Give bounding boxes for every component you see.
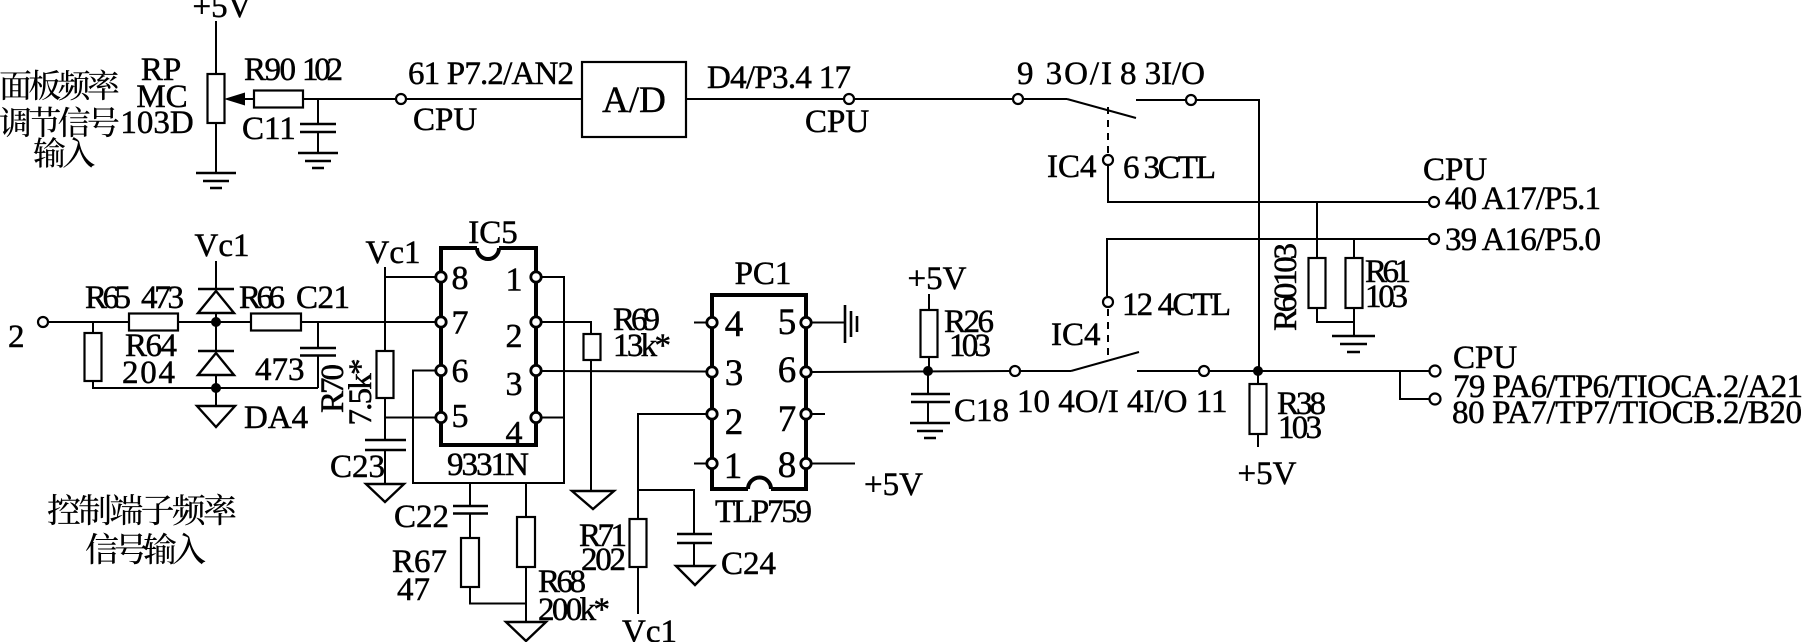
junction dot (lower node) xyxy=(211,383,221,393)
PC1 box xyxy=(712,295,806,489)
R26 lower lead xyxy=(928,357,930,371)
svg-text:7: 7 xyxy=(452,305,469,342)
capacitor C21 branch xyxy=(317,322,319,348)
R71 lower lead xyxy=(637,567,639,614)
chassis ground at pin 5 xyxy=(845,305,857,343)
resistor R66 body xyxy=(251,314,301,331)
diode DA4 upper triangle xyxy=(198,291,234,313)
wire to node xyxy=(215,313,217,322)
svg-text:9331N: 9331N xyxy=(447,447,529,483)
capacitor C18 branch xyxy=(927,371,929,394)
svg-text:200k*: 200k* xyxy=(538,592,610,628)
terminal 12 4CTL xyxy=(1103,297,1113,307)
R70 lower wire xyxy=(384,398,386,440)
junction dot (input node) xyxy=(211,317,221,327)
svg-text:47: 47 xyxy=(397,572,430,608)
svg-text:R90: R90 xyxy=(244,52,296,88)
resistor R61 upper lead xyxy=(1353,239,1355,258)
wire 2 to R65 xyxy=(48,321,129,323)
resistor R38 upper lead xyxy=(1257,371,1259,384)
capacitor C11 plates xyxy=(300,123,336,126)
terminal 79 xyxy=(1430,366,1441,377)
junction dot (R26/C18) xyxy=(923,366,933,376)
terminal 80 xyxy=(1430,394,1441,405)
svg-text:4: 4 xyxy=(506,415,523,452)
ground under C18 xyxy=(910,423,950,438)
svg-text:IC4: IC4 xyxy=(1047,149,1097,185)
svg-text:C22: C22 xyxy=(394,499,449,535)
svg-text:+5V: +5V xyxy=(1238,456,1297,492)
svg-text:C24: C24 xyxy=(721,546,776,582)
potentiometer wiper arrow xyxy=(243,98,254,100)
A/D converter box xyxy=(582,62,686,137)
terminal 4I/O 11 xyxy=(1199,366,1209,376)
capacitor C24 plates xyxy=(677,533,712,536)
ground triangle under C23 xyxy=(366,484,404,502)
capacitor C11 branch wire xyxy=(317,99,319,124)
PC1 pin 4 stub xyxy=(694,322,707,324)
dashed control line (3CTL) xyxy=(1107,107,1109,154)
ground under R61 xyxy=(1332,336,1375,352)
R67 bottom wire to R68 column xyxy=(470,587,526,604)
C24 lower lead xyxy=(693,543,695,566)
ground triangle under R69 xyxy=(572,491,614,509)
svg-text:473: 473 xyxy=(255,352,305,388)
wire to lower node xyxy=(215,375,217,388)
switch IC4 unit3 blade xyxy=(1023,98,1067,100)
PC1 pin 7 stub xyxy=(811,413,825,415)
dashed control line (4CTL) xyxy=(1107,309,1109,356)
ground triangle under R68 xyxy=(506,622,546,641)
svg-text:103: 103 xyxy=(949,328,991,364)
PC1 pin 5 wire xyxy=(811,322,844,324)
ground under C11 xyxy=(298,153,338,168)
ground under RP xyxy=(196,173,236,188)
svg-text:CPU: CPU xyxy=(805,104,869,140)
resistor R68 branch xyxy=(525,483,527,517)
svg-text:61 P7.2/AN2: 61 P7.2/AN2 xyxy=(408,56,574,92)
wire terminal 17 to switch xyxy=(854,98,1013,100)
svg-text:Vc1: Vc1 xyxy=(195,228,250,264)
resistor R61 lower lead xyxy=(1353,308,1355,336)
PC1 pin 1 stub xyxy=(694,463,707,465)
resistor R65 body xyxy=(129,314,178,331)
PC1 pin 8 wire xyxy=(811,463,855,465)
resistor R26 body xyxy=(921,310,938,357)
svg-text:2: 2 xyxy=(8,319,25,355)
wire 8 3I/O to right bus xyxy=(1196,100,1259,371)
svg-text:8: 8 xyxy=(452,260,469,297)
svg-text:8: 8 xyxy=(778,445,797,486)
wire 4CTL up to terminal 39 xyxy=(1107,239,1429,296)
switch right stub xyxy=(1137,370,1199,372)
wire R64 bottom to rail xyxy=(93,381,318,388)
IC5 pin 3 wire to PC1 pin 3 xyxy=(541,370,707,373)
switch IC4 unit4 blade xyxy=(1020,370,1071,372)
wire R90 to terminal xyxy=(303,98,396,100)
svg-text:12 4CTL: 12 4CTL xyxy=(1122,287,1231,323)
R38 lower lead xyxy=(1257,434,1259,447)
svg-text:+5V: +5V xyxy=(908,261,967,297)
wire C11 to ground xyxy=(317,132,319,153)
svg-text:39 A16/P5.0: 39 A16/P5.0 xyxy=(1445,222,1601,258)
capacitor C21 plates xyxy=(300,347,336,350)
svg-text:C11: C11 xyxy=(242,111,296,147)
diode DA4 lower cathode bar xyxy=(198,350,234,353)
branch to terminal 80 xyxy=(1400,371,1429,399)
svg-text:R60103: R60103 xyxy=(1268,243,1304,331)
svg-text:2: 2 xyxy=(506,318,523,355)
ground triangle under C24 xyxy=(676,566,714,585)
resistor R60 upper lead xyxy=(1316,202,1318,258)
resistor R64 body xyxy=(85,333,102,381)
terminal 2 xyxy=(38,317,48,327)
C23 lower lead xyxy=(384,450,386,484)
terminal 10 4O/I xyxy=(1010,366,1020,376)
svg-text:C18: C18 xyxy=(954,393,1009,429)
capacitor C22 plates xyxy=(453,505,488,508)
svg-text:A/D: A/D xyxy=(602,80,666,121)
resistor R61 body xyxy=(1346,258,1363,308)
resistor R60 body xyxy=(1309,258,1326,308)
svg-text:13k*: 13k* xyxy=(613,328,671,364)
terminal 39 A16/P5.0 xyxy=(1429,234,1439,244)
IC5 notch xyxy=(477,243,499,250)
svg-text:+5V: +5V xyxy=(864,467,923,503)
wire +5V to RP top xyxy=(215,21,217,74)
svg-text:40 A17/P5.1: 40 A17/P5.1 xyxy=(1445,181,1601,217)
Chinese label: control terminal frequency signal input xyxy=(48,494,80,525)
diode DA4 lower triangle xyxy=(198,353,234,375)
terminal 8 3I/O circle xyxy=(1186,95,1196,105)
svg-text:C21: C21 xyxy=(296,280,350,316)
capacitor C21 lower lead xyxy=(317,355,319,388)
switch right stub xyxy=(1136,99,1185,101)
svg-text:IC5: IC5 xyxy=(468,215,518,251)
wire to junction xyxy=(1209,370,1429,372)
svg-text:80 PA7/TP7/TIOCB.2/B20: 80 PA7/TP7/TIOCB.2/B20 xyxy=(1452,395,1802,431)
terminal 17 xyxy=(844,94,854,104)
wire Vc1 to diode xyxy=(215,261,217,290)
svg-text:3: 3 xyxy=(506,366,523,403)
svg-text:1: 1 xyxy=(724,446,743,487)
svg-text:2: 2 xyxy=(725,402,744,443)
Chinese label: panel frequency adjust signal input xyxy=(0,70,30,100)
wire node to lower diode xyxy=(215,322,217,352)
wire RP bottom to ground xyxy=(215,123,217,173)
IC5 box xyxy=(441,248,536,445)
PC1 notch (bottom) xyxy=(748,483,771,491)
svg-text:IC4: IC4 xyxy=(1051,317,1101,353)
capacitor C22 branch xyxy=(469,483,471,505)
terminal 9 3O/I xyxy=(1013,94,1023,104)
PC1 pin 2 wire xyxy=(638,414,707,519)
DA4 open triangle symbol xyxy=(197,406,235,427)
svg-text:C23: C23 xyxy=(330,449,385,485)
resistor R68 body xyxy=(517,517,535,567)
R69 lower lead xyxy=(590,360,592,491)
capacitor C23 plates xyxy=(365,439,406,442)
resistor R90 body xyxy=(254,91,303,108)
svg-text:R65: R65 xyxy=(85,280,131,316)
IC5 pin 5 wire xyxy=(385,417,436,419)
wire R66 to IC5 pin7 xyxy=(301,321,436,323)
svg-text:5: 5 xyxy=(778,302,797,343)
svg-text:Vc1: Vc1 xyxy=(366,235,421,271)
C18 lower lead xyxy=(927,402,929,423)
PC1 pin circles left (4,3,2,1) xyxy=(707,317,717,327)
resistor R60 lower lead xyxy=(1317,308,1354,322)
svg-text:DA4: DA4 xyxy=(244,400,308,436)
PC1 pin circles right (5,6,7,8) xyxy=(801,317,811,327)
resistor R70 body xyxy=(377,351,394,398)
svg-text:10 4O/I 4I/O 11: 10 4O/I 4I/O 11 xyxy=(1017,384,1228,420)
svg-text:102: 102 xyxy=(302,52,343,88)
wire A/D to terminal 17 xyxy=(686,98,844,100)
svg-text:473: 473 xyxy=(141,280,184,316)
wire R65 to node xyxy=(178,321,251,323)
svg-text:5: 5 xyxy=(452,398,469,435)
svg-text:PC1: PC1 xyxy=(735,256,792,292)
resistor R64 branch xyxy=(92,322,94,333)
Vc1 column upper wire xyxy=(384,267,386,351)
junction dot (right bus) xyxy=(1253,366,1263,376)
PC1 pin 6 wire xyxy=(811,371,1010,372)
C22 to R67 wire xyxy=(469,513,471,538)
resistor R69 body xyxy=(584,334,601,360)
svg-text:+5V: +5V xyxy=(193,0,252,25)
svg-text:204: 204 xyxy=(122,355,175,391)
svg-text:103: 103 xyxy=(1278,410,1322,446)
resistor R71 body xyxy=(630,519,647,567)
wire 3CTL to terminal 40 xyxy=(1108,165,1429,202)
potentiometer RP MC 103D body xyxy=(208,74,225,123)
svg-text:R66: R66 xyxy=(239,280,285,316)
svg-text:1: 1 xyxy=(506,262,523,299)
svg-text:8 3I/O: 8 3I/O xyxy=(1120,56,1205,92)
svg-text:Vc1: Vc1 xyxy=(622,614,677,642)
capacitor C18 plates xyxy=(911,393,950,396)
resistor R67 body xyxy=(461,538,479,587)
svg-text:9 3O/I: 9 3O/I xyxy=(1017,56,1112,92)
wire lower node to DA4 symbol xyxy=(215,388,217,406)
IC5 pin 2 wire to R69 xyxy=(541,322,591,334)
terminal 61 P7.2/AN2 xyxy=(396,94,406,104)
R68 lower lead xyxy=(525,567,527,622)
IC5 pin circles left (8,7,6,5) xyxy=(436,272,446,282)
wire terminal to A/D xyxy=(406,98,582,100)
svg-text:6 3CTL: 6 3CTL xyxy=(1123,150,1216,186)
svg-text:4: 4 xyxy=(725,304,744,345)
svg-text:7.5k*: 7.5k* xyxy=(343,359,379,426)
IC5 pin 4 wire xyxy=(541,417,564,419)
svg-text:6: 6 xyxy=(452,353,469,390)
svg-text:202: 202 xyxy=(581,542,626,578)
svg-text:3: 3 xyxy=(725,353,744,394)
svg-text:TLP759: TLP759 xyxy=(715,494,812,530)
resistor R38 body xyxy=(1250,384,1267,434)
svg-text:CPU: CPU xyxy=(413,102,477,138)
R26 upper lead xyxy=(928,294,930,310)
terminal 40 A17/P5.1 xyxy=(1429,197,1439,207)
diode DA4 upper cathode bar xyxy=(198,288,234,291)
svg-text:D4/P3.4 17: D4/P3.4 17 xyxy=(707,60,851,96)
svg-text:103: 103 xyxy=(1365,279,1408,315)
svg-text:7: 7 xyxy=(778,399,797,440)
terminal 6 3CTL xyxy=(1103,155,1113,165)
IC5 pin circles right (1,2,3,4) xyxy=(531,272,541,282)
C24 branch wire xyxy=(638,490,694,534)
svg-text:6: 6 xyxy=(778,350,797,391)
svg-text:103D: 103D xyxy=(120,105,193,141)
IC5 pin 8 wire xyxy=(385,276,436,278)
IC5 pin 6 loop to pin 1 xyxy=(413,277,564,483)
